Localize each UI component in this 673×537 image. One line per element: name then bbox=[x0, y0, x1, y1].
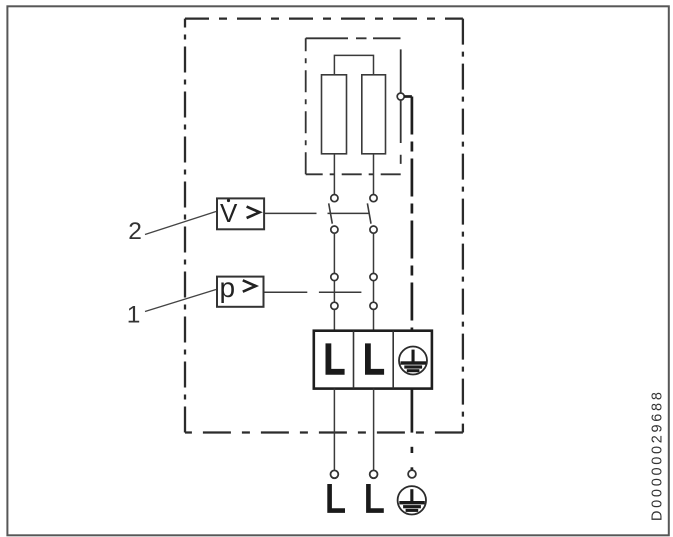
supply terminal circle L2 bbox=[370, 470, 378, 478]
wire S1b to terminal L2 bbox=[373, 309, 375, 330]
enclosure boundary (dash-dot outer box) bbox=[185, 19, 463, 433]
supply terminal circle L1 bbox=[331, 470, 339, 478]
pressure switch closed contact S1a bbox=[333, 281, 335, 303]
supply protective earth symbol bbox=[398, 486, 426, 514]
terminal label L (cell 2) bbox=[368, 343, 384, 371]
contact terminal circles S1a bbox=[331, 273, 377, 309]
link line from pressure sensor box to S1 bbox=[264, 291, 308, 293]
svg-text:1: 1 bbox=[127, 302, 141, 329]
wire S1a to terminal L1 bbox=[333, 309, 335, 330]
svg-text:2: 2 bbox=[128, 218, 142, 245]
pressure sensor box p> (item 1) bbox=[217, 277, 264, 307]
leader line for 1 bbox=[145, 290, 216, 312]
leader line for 2 bbox=[145, 212, 216, 235]
supply terminal circle PE bbox=[408, 470, 416, 478]
supply label L (phase 1) bbox=[330, 484, 345, 511]
terminal divider 2 bbox=[392, 331, 394, 389]
pressure switch closed contact S1b bbox=[373, 281, 375, 303]
terminal label L (cell 1) bbox=[328, 343, 344, 371]
wire terminal L2 to supply bbox=[373, 389, 375, 471]
coupling line between S2 blades bbox=[328, 212, 370, 214]
flow switch contact blade S2a bbox=[329, 203, 333, 223]
PE wire elbow bbox=[404, 95, 412, 98]
svg-text:D00000029688: D00000029688 bbox=[650, 389, 666, 521]
contact terminal circles S2b bbox=[370, 195, 377, 202]
wire terminal L1 to supply bbox=[333, 389, 335, 471]
PE wire below terminal block bbox=[411, 389, 414, 433]
heater assembly boundary (dash-dot inner box) bbox=[306, 38, 401, 174]
wire E1 bottom to contact S2a bbox=[333, 154, 335, 195]
terminal block bbox=[314, 331, 432, 389]
terminal divider 1 bbox=[353, 331, 355, 389]
flow switch contact blade S2b bbox=[367, 203, 371, 223]
flow sensor box V> (item 2) bbox=[217, 198, 264, 229]
link line from flow sensor box to S2 bbox=[264, 212, 316, 214]
wire S2a to S1a bbox=[333, 233, 335, 273]
svg-text:p: p bbox=[220, 272, 236, 303]
resistor heating element E1 bbox=[322, 75, 347, 154]
PE wire dashes to supply bbox=[411, 447, 414, 453]
contact terminal circles S1b bbox=[370, 273, 377, 280]
coupling line across S1a bbox=[319, 291, 362, 293]
contact terminal circles S2a bbox=[331, 195, 377, 234]
supply label L (phase 2) bbox=[368, 484, 383, 511]
wire S2b to S1b bbox=[373, 233, 375, 273]
PE wire down to terminal block (dash-dot) bbox=[411, 97, 414, 331]
resistor heating element E2 bbox=[362, 75, 386, 154]
protective earth symbol in terminal block bbox=[399, 347, 427, 375]
wire E2 bottom to contact S2b bbox=[373, 154, 375, 195]
PE terminal circle on heater flange bbox=[397, 93, 404, 100]
svg-text:V: V bbox=[220, 198, 238, 228]
wire bridge between element tops bbox=[334, 55, 373, 74]
